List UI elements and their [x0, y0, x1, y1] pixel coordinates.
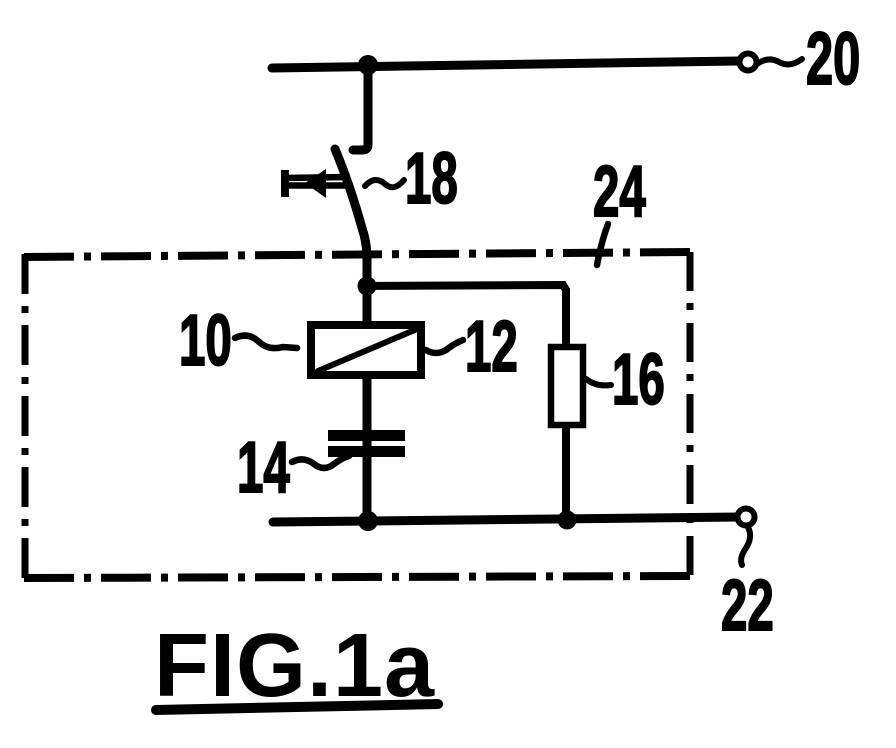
relay coil diagonal stroke	[318, 329, 417, 371]
terminal 22 (open circle)	[738, 509, 755, 526]
label 18	[405, 138, 458, 218]
svg-text:10: 10	[179, 300, 232, 380]
svg-text:22: 22	[721, 565, 774, 645]
enclosure 24: dash-dot box top edge	[24, 252, 690, 257]
label 24	[593, 151, 646, 231]
resistor 16 (rectangle)	[551, 347, 583, 425]
wire: from top rail down to switch 18	[353, 65, 368, 150]
caption FIG.1a	[154, 616, 435, 716]
relay coil 10/12 (rectangle)	[311, 325, 421, 375]
lead squiggle from label 10 to relay	[235, 336, 297, 349]
wire: top supply rail	[272, 61, 739, 68]
label 14	[237, 427, 290, 507]
label 12	[465, 306, 518, 386]
switch 18 actuator arrow end bar	[281, 170, 289, 197]
svg-text:24: 24	[593, 151, 646, 231]
wire: relay bottom lead to capacitor	[363, 377, 372, 432]
switch 18 actuator arrow shaft (double line)	[285, 177, 347, 186]
enclosure 24: dash-dot box left edge	[22, 254, 29, 578]
wire: resistor bottom lead	[562, 425, 570, 521]
lead squiggle from label 14 to capacitor	[292, 456, 349, 468]
svg-text:18: 18	[405, 138, 458, 218]
lead squiggle to label 20	[757, 59, 802, 64]
wire: junction to resistor branch (horizontal + down)	[367, 285, 566, 348]
node: junction of resistor branch and bottom rail	[558, 511, 577, 530]
svg-text:16: 16	[612, 339, 665, 419]
caption underline	[156, 704, 438, 710]
label 20	[806, 18, 860, 101]
svg-text:20: 20	[806, 18, 860, 101]
svg-text:14: 14	[237, 427, 290, 507]
label 22	[721, 565, 774, 645]
node: junction of capacitor branch and bottom rail	[358, 511, 378, 531]
capacitor 14 bottom plate	[328, 446, 405, 457]
lead line from label 24 to enclosure edge	[597, 224, 608, 265]
capacitor 14 top plate	[328, 430, 405, 441]
switch 18 blade	[335, 149, 367, 258]
lead squiggle from relay to label 12	[426, 340, 463, 353]
node: junction at relay top branch	[358, 277, 377, 296]
node: junction of top rail and switch branch	[358, 55, 378, 75]
lead squiggle from resistor to label 16	[586, 379, 611, 385]
terminal 20 (open circle)	[740, 54, 757, 71]
svg-text:12: 12	[465, 306, 518, 386]
label 16	[612, 339, 665, 419]
enclosure 24: dash-dot box right edge	[687, 252, 694, 575]
wire: relay top lead	[363, 290, 372, 323]
wire: switch to relay node	[363, 255, 372, 300]
lead squiggle to label 22	[741, 527, 750, 565]
lead squiggle to label 18	[365, 180, 404, 187]
enclosure 24: dash-dot box bottom edge	[24, 576, 690, 578]
switch 18 actuator arrowhead	[305, 169, 326, 198]
label 10	[179, 300, 232, 380]
wire: capacitor to bottom rail	[363, 432, 372, 521]
wire: bottom rail	[273, 517, 739, 522]
